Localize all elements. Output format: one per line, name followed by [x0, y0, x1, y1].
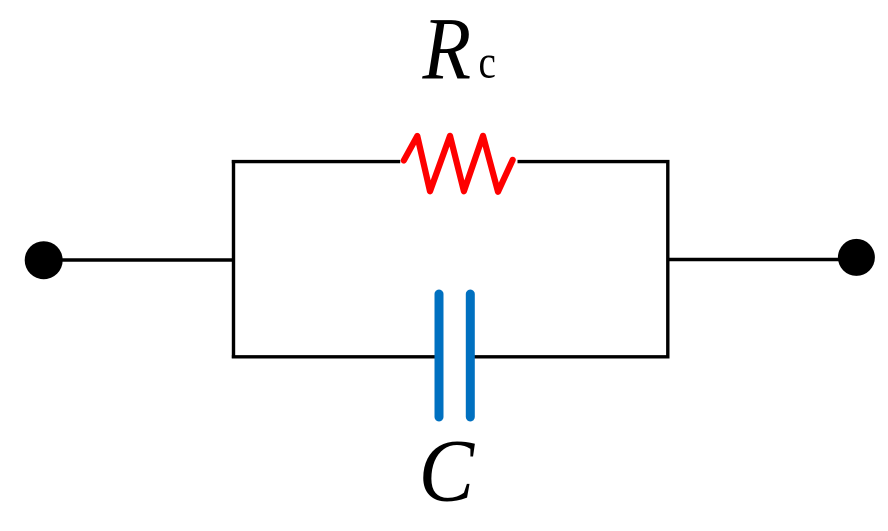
- wire (bottom-left segment to capacitor): [232, 355, 439, 358]
- node A (left terminal dot): [25, 241, 63, 279]
- node B (right terminal dot): [838, 239, 875, 276]
- svg-text:c: c: [479, 36, 496, 88]
- wire (right vertical branch of parallel loop): [666, 160, 669, 358]
- svg-text:C: C: [419, 423, 476, 521]
- wire (top-left segment to resistor): [232, 160, 400, 163]
- capacitor C (right plate): [466, 294, 475, 417]
- wire (left vertical branch of parallel loop): [232, 160, 235, 358]
- wire (resistor to top-right segment): [518, 160, 670, 163]
- wire (right side of loop to right terminal): [667, 258, 857, 261]
- wire (left terminal to left side of loop): [44, 258, 235, 261]
- wire (capacitor to bottom-right segment): [470, 355, 669, 358]
- resistor Rc (red zigzag): [404, 136, 513, 192]
- capacitor C (left plate): [435, 294, 444, 417]
- svg-text:R: R: [422, 0, 471, 98]
